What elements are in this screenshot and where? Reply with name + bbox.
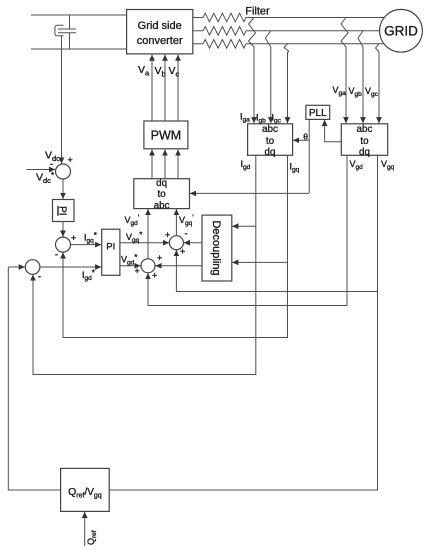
svg-text:Vgd: Vgd xyxy=(350,159,364,171)
svg-text:dq: dq xyxy=(156,178,167,189)
svg-text:abc: abc xyxy=(154,200,170,211)
svg-text:+: + xyxy=(157,253,162,263)
svg-text:Vgq: Vgq xyxy=(381,159,395,171)
svg-text:Va: Va xyxy=(138,64,150,78)
svg-text:Igd*: Igd* xyxy=(82,269,95,283)
svg-text:Qref: Qref xyxy=(86,530,98,545)
svg-text:PI: PI xyxy=(106,242,115,253)
svg-text:Filter: Filter xyxy=(245,6,270,18)
svg-text:Vgb: Vgb xyxy=(349,86,363,98)
svg-text:Igc: Igc xyxy=(272,113,282,125)
svg-text:Igq*: Igq* xyxy=(84,231,97,245)
svg-text:+: + xyxy=(152,271,157,281)
svg-text:Vgq': Vgq' xyxy=(179,214,194,228)
svg-text:GRID: GRID xyxy=(384,24,418,39)
svg-text:Iga: Iga xyxy=(240,112,250,124)
svg-text:dq: dq xyxy=(265,147,276,158)
svg-text:Vgc: Vgc xyxy=(365,86,379,98)
svg-text:+: + xyxy=(180,247,185,257)
svg-text:to: to xyxy=(266,136,275,147)
svg-text:to: to xyxy=(360,136,369,147)
svg-text:Vb: Vb xyxy=(155,65,166,79)
svg-text:+: + xyxy=(68,155,73,165)
svg-text:converter: converter xyxy=(137,35,183,47)
svg-text:+: + xyxy=(135,266,140,276)
svg-text:Vgd': Vgd' xyxy=(125,214,140,228)
svg-text:Grid side: Grid side xyxy=(138,20,182,32)
svg-text:PI: PI xyxy=(57,206,68,215)
svg-text:-: - xyxy=(38,272,41,282)
svg-text:abc: abc xyxy=(262,124,278,135)
svg-text:-: - xyxy=(185,229,188,239)
svg-text:-: - xyxy=(55,250,58,260)
svg-text:abc: abc xyxy=(357,124,373,135)
svg-text:Igd: Igd xyxy=(241,159,251,171)
svg-text:Igq: Igq xyxy=(290,162,300,174)
svg-text:Vga: Vga xyxy=(333,85,347,97)
svg-text:PWM: PWM xyxy=(151,129,182,143)
svg-text:θ: θ xyxy=(303,132,308,142)
svg-text:+: + xyxy=(71,233,76,243)
svg-text:Igb: Igb xyxy=(256,113,266,125)
svg-text:Vdc*: Vdc* xyxy=(36,171,54,185)
svg-text:Decoupling: Decoupling xyxy=(210,220,222,275)
svg-text:-: - xyxy=(50,159,53,169)
svg-text:+: + xyxy=(165,230,170,240)
svg-text:Vgd*: Vgd* xyxy=(121,253,137,267)
svg-text:dq: dq xyxy=(359,147,370,158)
svg-text:to: to xyxy=(158,189,167,200)
svg-text:Vgq*: Vgq* xyxy=(126,231,142,245)
svg-text:PLL: PLL xyxy=(309,108,327,119)
